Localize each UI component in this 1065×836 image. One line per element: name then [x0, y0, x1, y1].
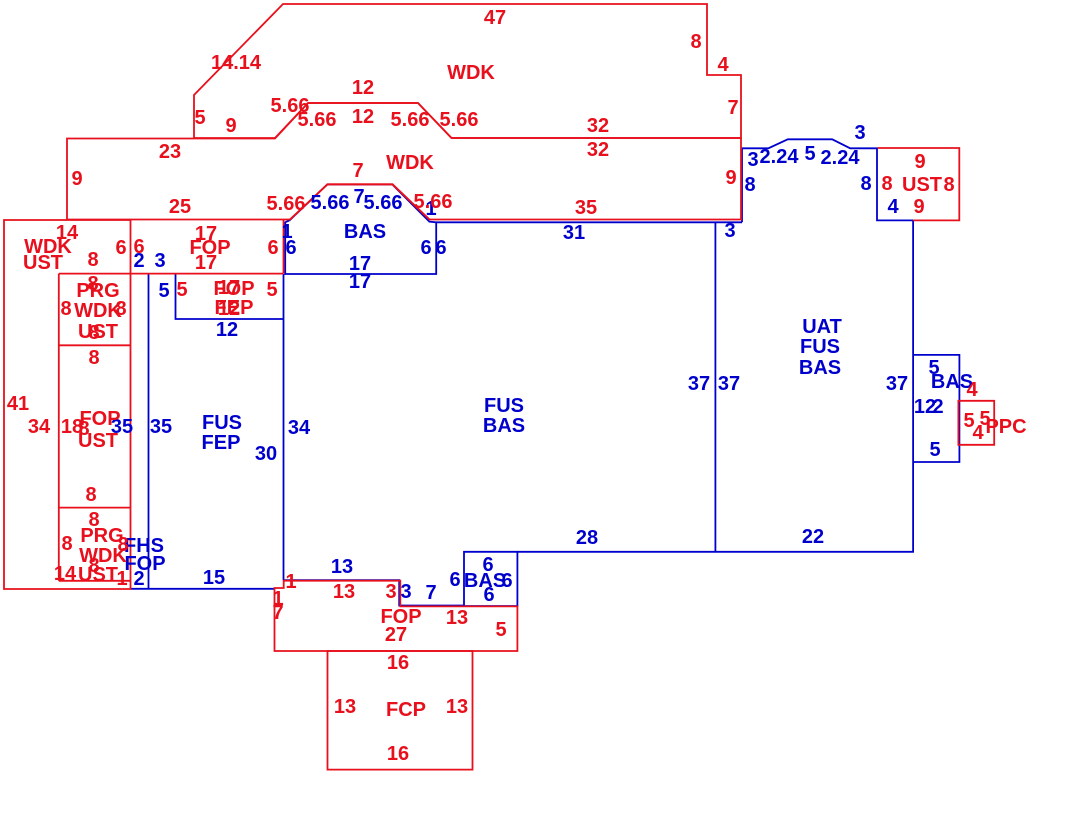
blue hy588 — [131, 588, 275, 590]
svg-text:30: 30 — [255, 443, 277, 465]
svg-text:FCP: FCP — [386, 699, 426, 721]
svg-text:FUS: FUS — [202, 412, 242, 434]
svg-text:UST: UST — [902, 174, 942, 196]
svg-text:9: 9 — [71, 168, 82, 190]
svg-text:13: 13 — [334, 696, 356, 718]
blue bas_right — [913, 355, 959, 462]
svg-text:4: 4 — [717, 54, 729, 76]
svg-text:WDK: WDK — [447, 62, 495, 84]
svg-text:BAS: BAS — [799, 357, 841, 379]
svg-text:8: 8 — [61, 533, 72, 555]
svg-text:15: 15 — [203, 567, 225, 589]
svg-text:8: 8 — [115, 298, 126, 320]
svg-text:12: 12 — [352, 77, 374, 99]
svg-text:9: 9 — [914, 151, 925, 173]
red hy345 — [59, 344, 131, 346]
svg-text:8: 8 — [690, 31, 701, 53]
red fopstrip — [275, 581, 518, 651]
svg-text:17: 17 — [349, 271, 371, 293]
blue basbox_top — [285, 185, 436, 275]
svg-text:7: 7 — [272, 602, 283, 624]
svg-text:2: 2 — [133, 568, 144, 590]
svg-text:6: 6 — [420, 237, 431, 259]
svg-text:UST: UST — [78, 430, 118, 452]
svg-text:35: 35 — [575, 197, 597, 219]
svg-text:34: 34 — [288, 417, 311, 439]
svg-text:8: 8 — [744, 174, 755, 196]
svg-text:FEP: FEP — [202, 432, 241, 454]
svg-text:13: 13 — [331, 556, 353, 578]
svg-text:3: 3 — [154, 250, 165, 272]
svg-text:8: 8 — [860, 173, 871, 195]
svg-text:6: 6 — [115, 237, 126, 259]
svg-text:37: 37 — [718, 373, 740, 395]
svg-text:BAS: BAS — [344, 221, 386, 243]
red hy580 — [59, 580, 131, 582]
blue rightchain — [517, 139, 913, 552]
svg-text:8: 8 — [88, 347, 99, 369]
svg-text:6: 6 — [267, 237, 278, 259]
svg-text:14: 14 — [54, 563, 77, 585]
svg-text:17: 17 — [218, 277, 240, 299]
svg-text:5: 5 — [176, 279, 187, 301]
svg-text:5: 5 — [929, 439, 940, 461]
svg-text:16: 16 — [387, 652, 409, 674]
blue v715 — [714, 222, 716, 552]
svg-text:16: 16 — [387, 743, 409, 765]
svg-text:FUS: FUS — [484, 395, 524, 417]
svg-text:8: 8 — [881, 173, 892, 195]
red fopright — [283, 220, 285, 274]
svg-text:8: 8 — [943, 174, 954, 196]
svg-text:7: 7 — [727, 97, 738, 119]
svg-text:37: 37 — [886, 373, 908, 395]
svg-text:UST: UST — [23, 252, 63, 274]
svg-text:2.24: 2.24 — [760, 146, 800, 168]
red ppc — [958, 401, 994, 445]
svg-text:WDK: WDK — [386, 152, 434, 174]
svg-text:5: 5 — [194, 107, 205, 129]
svg-text:28: 28 — [576, 527, 598, 549]
red row2 — [67, 103, 741, 220]
svg-text:7: 7 — [425, 582, 436, 604]
svg-text:32: 32 — [587, 139, 609, 161]
svg-text:6: 6 — [285, 237, 296, 259]
red row1 — [194, 4, 741, 138]
svg-text:37: 37 — [688, 373, 710, 395]
svg-text:3: 3 — [724, 220, 735, 242]
blue topline — [436, 221, 742, 223]
svg-text:13: 13 — [446, 696, 468, 718]
svg-text:3: 3 — [385, 581, 396, 603]
svg-text:5.66: 5.66 — [440, 109, 479, 131]
blue zigzag — [284, 580, 465, 605]
svg-text:14.14: 14.14 — [211, 52, 262, 74]
svg-text:5.66: 5.66 — [298, 109, 337, 131]
svg-text:13: 13 — [333, 581, 355, 603]
svg-text:3: 3 — [747, 149, 758, 171]
svg-text:5.66: 5.66 — [364, 192, 403, 214]
svg-text:3: 3 — [854, 122, 865, 144]
svg-text:13: 13 — [446, 607, 468, 629]
svg-text:8: 8 — [60, 298, 71, 320]
svg-text:BAS: BAS — [483, 415, 525, 437]
svg-text:3: 3 — [400, 581, 411, 603]
svg-text:UST: UST — [78, 564, 118, 586]
red fcp — [328, 651, 473, 770]
svg-text:UST: UST — [78, 321, 118, 343]
svg-text:5: 5 — [158, 280, 169, 302]
svg-text:5.66: 5.66 — [391, 109, 430, 131]
blue v148 — [148, 274, 150, 589]
blue v283 — [283, 274, 285, 580]
svg-text:32: 32 — [587, 115, 609, 137]
red hump2red — [290, 184, 430, 219]
svg-text:FOP: FOP — [79, 408, 120, 430]
svg-text:5.66: 5.66 — [414, 191, 453, 213]
svg-text:2: 2 — [932, 396, 943, 418]
red hy273 — [59, 273, 284, 275]
svg-text:9: 9 — [225, 115, 236, 137]
svg-text:PPC: PPC — [985, 416, 1026, 438]
blue bas_small — [464, 552, 517, 606]
svg-text:5: 5 — [266, 279, 277, 301]
svg-text:9: 9 — [913, 196, 924, 218]
svg-text:12: 12 — [218, 298, 240, 320]
svg-text:FUS: FUS — [800, 336, 840, 358]
svg-text:35: 35 — [150, 416, 172, 438]
svg-text:6: 6 — [435, 237, 446, 259]
red divx58 — [58, 274, 60, 581]
svg-text:23: 23 — [159, 141, 181, 163]
svg-text:12: 12 — [352, 106, 374, 128]
red leftrect — [4, 220, 131, 589]
svg-text:25: 25 — [169, 196, 191, 218]
svg-text:2.24: 2.24 — [821, 147, 861, 169]
svg-text:5: 5 — [495, 619, 506, 641]
svg-text:7: 7 — [352, 160, 363, 182]
svg-text:27: 27 — [385, 624, 407, 646]
svg-text:5: 5 — [804, 143, 815, 165]
svg-text:9: 9 — [725, 167, 736, 189]
svg-text:6: 6 — [501, 570, 512, 592]
svg-text:4: 4 — [966, 379, 978, 401]
svg-text:8: 8 — [87, 249, 98, 271]
svg-text:4: 4 — [972, 422, 984, 444]
svg-text:5.66: 5.66 — [267, 193, 306, 215]
svg-text:8: 8 — [85, 484, 96, 506]
svg-text:41: 41 — [7, 393, 29, 415]
svg-text:1: 1 — [285, 571, 296, 593]
svg-text:UAT: UAT — [802, 316, 842, 338]
svg-text:5.66: 5.66 — [311, 192, 350, 214]
svg-text:12: 12 — [216, 319, 238, 341]
svg-text:FOP: FOP — [124, 553, 165, 575]
svg-text:6: 6 — [483, 584, 494, 606]
svg-text:PRG: PRG — [76, 280, 119, 302]
svg-text:31: 31 — [563, 222, 585, 244]
svg-text:1: 1 — [116, 568, 127, 590]
red ustbox — [878, 148, 960, 220]
svg-text:22: 22 — [802, 526, 824, 548]
red hy507 — [59, 507, 131, 509]
svg-text:34: 34 — [28, 416, 51, 438]
svg-text:6: 6 — [133, 236, 144, 258]
svg-text:4: 4 — [887, 196, 899, 218]
svg-text:6: 6 — [449, 569, 460, 591]
blue box12 — [176, 274, 284, 319]
svg-text:17: 17 — [195, 252, 217, 274]
svg-text:47: 47 — [484, 7, 506, 29]
